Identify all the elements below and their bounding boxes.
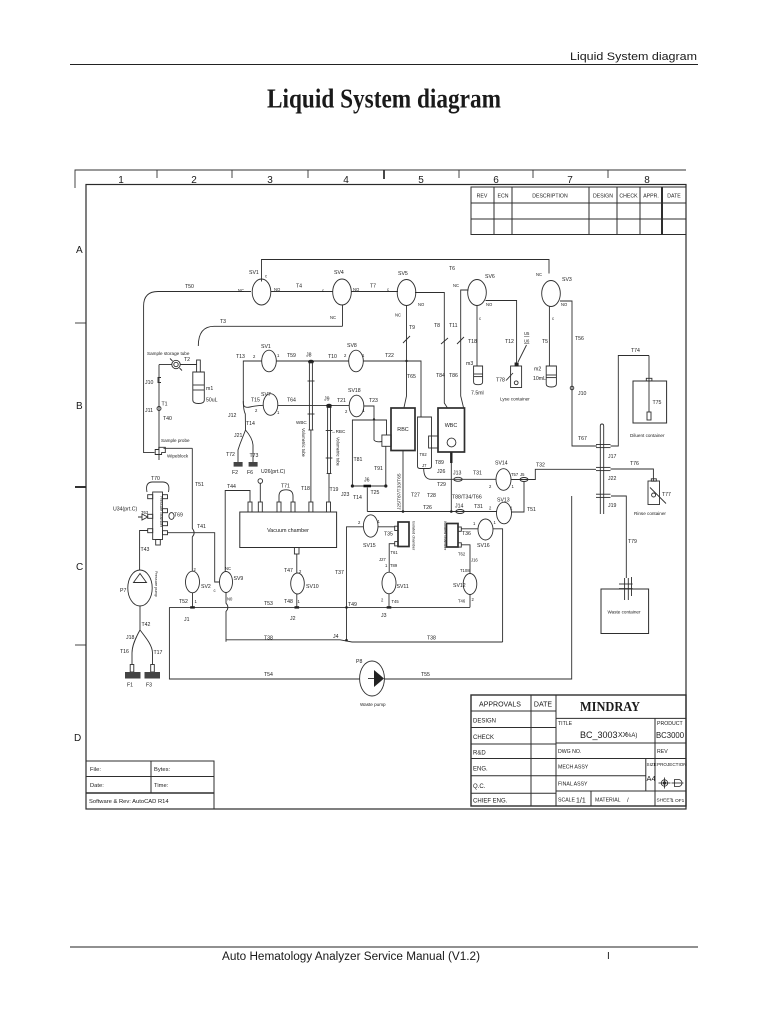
svg-text:T26: T26 (423, 505, 432, 511)
svg-text:J6: J6 (364, 478, 370, 484)
svg-text:T15: T15 (251, 398, 260, 404)
svg-text:PROJECTION: PROJECTION (657, 762, 687, 767)
svg-text:NC: NC (536, 272, 542, 277)
wire right chamber to SV16 (461, 528, 478, 530)
svg-text:J22: J22 (608, 476, 616, 482)
svg-text:T38: T38 (427, 636, 436, 642)
wire SV16 out down to T38 (493, 529, 503, 642)
svg-text:SV18: SV18 (348, 388, 361, 394)
wire T50 from SV1 NC to sample area (144, 292, 251, 453)
svg-text:Isolated chamber: Isolated chamber (412, 521, 416, 551)
drawing border frame (86, 185, 686, 810)
svg-text:SV11: SV11 (397, 584, 409, 590)
pump P7 (128, 570, 152, 606)
wire left chamber bottom to SV11 (389, 544, 395, 573)
svg-text:T81: T81 (354, 457, 363, 463)
isolated chamber left (398, 522, 409, 547)
svg-text:Rinse container: Rinse container (634, 511, 666, 516)
svg-text:A4: A4 (647, 774, 656, 783)
node J10 bracket on probe (158, 378, 161, 383)
J6 tick on loop bottom (364, 485, 372, 488)
sample storage tube connector circle (172, 360, 180, 368)
wire T59 to J8 (276, 360, 349, 362)
revision table top right (471, 187, 686, 235)
svg-text:T78: T78 (496, 378, 505, 384)
ruler ticks top (157, 170, 608, 179)
svg-text:T50: T50 (185, 284, 194, 290)
ruler top line (75, 169, 686, 171)
svg-text:T54: T54 (264, 672, 273, 678)
svg-text:→RBC: →RBC (331, 429, 346, 434)
svg-text:T31: T31 (474, 504, 483, 510)
svg-text:WBC: WBC (296, 420, 307, 425)
svg-text:T7: T7 (370, 284, 376, 290)
svg-text:U34(prt.C): U34(prt.C) (113, 507, 137, 513)
wire J13 row from J7 to SV14 (424, 469, 496, 480)
wire SV11 down to J3 (388, 594, 390, 608)
svg-text:SV1: SV1 (261, 344, 271, 350)
svg-text:T91: T91 (374, 466, 383, 472)
svg-text:J7: J7 (422, 463, 427, 468)
svg-text:APPR.: APPR. (643, 194, 659, 200)
svg-text:Liquid System diagram: Liquid System diagram (570, 51, 697, 63)
svg-text:T41: T41 (197, 524, 206, 530)
svg-text:T2: T2 (184, 357, 190, 363)
svg-text:T42: T42 (142, 622, 151, 628)
WBC volumetric tube under J8 (308, 363, 315, 502)
svg-text:7.5ml: 7.5ml (471, 391, 484, 397)
svg-text:%A): %A) (626, 733, 637, 739)
sensor U34 transducer (138, 514, 148, 520)
valve SV8 (349, 350, 364, 372)
waste container (601, 589, 649, 634)
wire T11/T86 SV6 NC to WBC (461, 290, 469, 408)
svg-text:DESIGN: DESIGN (473, 719, 496, 725)
valve SV5 (397, 280, 416, 306)
wire T64 SV7 to J9 (278, 404, 350, 406)
svg-text:T9: T9 (409, 325, 415, 331)
wire T48 SV10 to J2 (296, 594, 298, 607)
wire T4 SV1-SV4 (271, 291, 333, 293)
svg-text:T12: T12 (505, 339, 514, 345)
diluent probe (648, 356, 650, 413)
loop top wire (352, 420, 386, 486)
svg-text:T46: T46 (458, 599, 466, 604)
svg-text:REV: REV (657, 749, 668, 755)
svg-text:T25: T25 (371, 490, 380, 496)
m1 tube vial (193, 360, 205, 404)
svg-text:T69: T69 (174, 513, 183, 519)
svg-text:Vacuum chamber: Vacuum chamber (267, 528, 309, 534)
svg-text:T14: T14 (246, 421, 255, 427)
svg-text:Date:: Date: (90, 783, 104, 789)
filter F6 (252, 455, 254, 462)
svg-text:ENG.: ENG. (473, 767, 488, 773)
svg-text:PRODUCT: PRODUCT (657, 721, 683, 727)
svg-text:F6: F6 (247, 470, 253, 476)
svg-text:DATE: DATE (534, 702, 552, 709)
svg-text:T55: T55 (421, 672, 430, 678)
svg-text:Waste pump: Waste pump (360, 702, 386, 707)
svg-text:Volumetric tube: Volumetric tube (336, 437, 341, 467)
svg-text:Sample storage tube: Sample storage tube (147, 351, 190, 356)
footer rule (70, 946, 698, 948)
wire T79 to waste container (611, 496, 626, 578)
wire T54 loop left (169, 607, 359, 679)
RBC volumetric tube under J9 (326, 407, 333, 502)
svg-text:J14: J14 (455, 504, 463, 510)
wire T18 SV6 c to m3 vial (476, 306, 478, 367)
svg-text:J5: J5 (520, 472, 525, 477)
svg-text:10mL: 10mL (533, 376, 546, 382)
svg-text:T47: T47 (284, 568, 293, 574)
wire T14 drop from J6 to T26 line (366, 488, 368, 512)
svg-text:T5: T5 (542, 339, 548, 345)
wire J5 down to SV13 out (511, 482, 524, 513)
wire SV9 NO down through hop to T38 (226, 593, 228, 642)
svg-text:T67: T67 (578, 436, 587, 442)
wire T43 chamber to P7 (140, 531, 148, 571)
svg-text:SCALE: SCALE (558, 798, 576, 804)
svg-text:T79: T79 (628, 539, 637, 545)
svg-text:RBC: RBC (397, 427, 408, 433)
svg-text:m1: m1 (206, 386, 213, 392)
svg-text:T16: T16 (120, 649, 129, 655)
svg-text:T43: T43 (141, 547, 150, 553)
svg-text:T18: T18 (301, 486, 310, 492)
wire T47 to SV10 (296, 554, 298, 573)
svg-text:MECH ASSY: MECH ASSY (558, 765, 589, 771)
WBC aperture circle (447, 438, 456, 447)
wire T41 chamber to SV9 c (168, 533, 220, 582)
valve SV10 (291, 573, 305, 594)
svg-text:J1: J1 (184, 617, 190, 623)
svg-text:SV6: SV6 (485, 274, 495, 280)
wire T56 SV3 NO down to J10/T67 (560, 301, 597, 446)
svg-text:T63: T63 (141, 510, 149, 515)
wire wipeblock to T51 (164, 447, 193, 449)
wire T15 J12 to SV7 (243, 403, 263, 407)
svg-text:Lyse container: Lyse container (500, 397, 530, 402)
svg-text:T74: T74 (631, 348, 640, 354)
filter F2 (237, 455, 239, 462)
ruler numbers 1-8 (118, 175, 650, 186)
wipeblock (155, 447, 165, 454)
svg-text:ECN: ECN (498, 194, 509, 200)
svg-text:NC: NC (330, 315, 336, 320)
node J10 (570, 386, 574, 390)
svg-text:J19: J19 (608, 503, 616, 509)
svg-text:T38: T38 (264, 636, 273, 642)
svg-text:SV4: SV4 (334, 270, 344, 276)
WBC drain wire (450, 452, 452, 512)
svg-text:T21: T21 (337, 398, 346, 404)
svg-text:J17: J17 (608, 454, 616, 460)
wire T2 left segment (159, 364, 172, 366)
rinse container (648, 481, 660, 505)
arc T71 between chamber ports (279, 490, 293, 502)
svg-text:FINAL ASSY: FINAL ASSY (558, 782, 588, 788)
valve SV6 (468, 280, 487, 306)
wire SV2 to J1 (192, 593, 194, 608)
svg-text:N0: N0 (227, 597, 233, 602)
svg-text:SV1: SV1 (249, 270, 259, 276)
valve SV7 (263, 394, 278, 416)
svg-text:T35: T35 (384, 532, 393, 538)
svg-text:CHECK: CHECK (473, 735, 494, 741)
valve SV13 (497, 502, 512, 524)
svg-text:T52: T52 (179, 599, 188, 605)
svg-text:SV9: SV9 (234, 576, 244, 582)
svg-text:T89: T89 (435, 460, 444, 466)
svg-text:m3: m3 (466, 361, 473, 367)
RBC drain wire with label column (402, 451, 404, 512)
svg-text:Pressure pump: Pressure pump (154, 571, 158, 597)
svg-text:J10: J10 (145, 380, 153, 386)
svg-text:c: c (552, 316, 554, 321)
svg-text:T73: T73 (250, 453, 259, 459)
svg-text:T72: T72 (226, 452, 235, 458)
svg-text:T53: T53 (264, 601, 273, 607)
svg-text:T44: T44 (227, 484, 236, 490)
svg-text:Time:: Time: (154, 783, 169, 789)
svg-text:J10: J10 (578, 391, 586, 397)
ruler corner stub left (75, 170, 96, 188)
svg-text:DESCRIPTION: DESCRIPTION (532, 194, 568, 200)
file info table bottom left (86, 761, 214, 809)
lyse container (511, 366, 522, 388)
svg-text:SV7: SV7 (261, 392, 271, 398)
svg-text:SV14: SV14 (495, 461, 508, 467)
svg-text:T37: T37 (335, 570, 344, 576)
svg-text:T88/T34/T66: T88/T34/T66 (452, 495, 482, 501)
pressure chamber dome T70 (147, 482, 169, 492)
manifold crossbar J17 (596, 445, 611, 448)
wire T74 to diluent container (611, 356, 650, 447)
svg-text:T59: T59 (287, 353, 296, 359)
svg-text:B: B (76, 401, 83, 412)
svg-text:J25/T87/T33/T65: J25/T87/T33/T65 (397, 473, 403, 510)
wire T5 SV3 c to m2 vial (548, 307, 550, 367)
svg-text:NC: NC (225, 566, 231, 571)
RBC box (391, 408, 415, 451)
svg-text:J11: J11 (145, 408, 153, 414)
svg-text:NO: NO (561, 302, 568, 307)
svg-text:NC: NC (395, 313, 401, 318)
m2 reagent vial (546, 366, 556, 387)
wire SV4 NC down to T3 (342, 305, 344, 326)
svg-text:F1: F1 (127, 683, 133, 689)
wire T26 row (367, 511, 496, 513)
svg-text:J12: J12 (228, 413, 236, 419)
svg-text:File:: File: (90, 767, 101, 773)
svg-text:J26: J26 (437, 469, 445, 475)
chamber nipples (148, 495, 168, 545)
svg-text:1 OF1: 1 OF1 (671, 798, 685, 804)
svg-text:WBC: WBC (445, 423, 458, 429)
svg-text:A: A (76, 245, 83, 256)
vacuum chamber top nipples (248, 502, 331, 512)
svg-text:R&D: R&D (473, 751, 486, 757)
svg-text:NO: NO (486, 302, 493, 307)
svg-text:NC: NC (453, 283, 459, 288)
valve SV12 (463, 574, 477, 595)
diluent container box (633, 381, 667, 423)
svg-text:BC3000: BC3000 (656, 730, 684, 740)
svg-text:F2: F2 (232, 470, 238, 476)
svg-text:DWG NO.: DWG NO. (558, 749, 581, 755)
filter F3 (151, 665, 155, 673)
svg-text:T23: T23 (369, 398, 378, 404)
svg-text:T82: T82 (420, 452, 428, 457)
filter F1 (130, 665, 134, 673)
pressure chamber body (153, 492, 163, 540)
wire T9/T65 SV5 NC to RBC (404, 306, 407, 408)
svg-text:T48: T48 (284, 599, 293, 605)
svg-text:U6: U6 (524, 339, 530, 344)
header rule (70, 64, 698, 66)
pump P8 waste pump (360, 661, 385, 696)
svg-text:J2: J2 (290, 616, 296, 622)
svg-text:T64: T64 (287, 398, 296, 404)
svg-text:CHIEF ENG.: CHIEF ENG. (473, 799, 508, 805)
sample probe wire (158, 365, 160, 460)
svg-text:T61: T61 (391, 550, 399, 555)
svg-text:T71: T71 (281, 484, 290, 490)
svg-text:Waste container: Waste container (607, 610, 640, 615)
ruler side ticks left (75, 323, 86, 645)
loop corner blobs (351, 484, 354, 487)
svg-text:T8: T8 (434, 323, 440, 329)
wire SV12 down to T53 (469, 595, 471, 608)
revision table headers (477, 194, 682, 200)
svg-text:T89: T89 (390, 563, 398, 568)
svg-text:c: c (387, 287, 389, 292)
svg-text:T29: T29 (437, 482, 446, 488)
vacuum chamber bottom nipple (294, 548, 299, 555)
vacuum chamber box (240, 512, 337, 548)
svg-text:c: c (214, 588, 216, 593)
svg-text:P8: P8 (356, 659, 362, 665)
wire T38 line (226, 640, 503, 642)
svg-text:T3: T3 (220, 319, 226, 325)
svg-text:T36: T36 (462, 531, 471, 537)
svg-text:Volumetric tube: Volumetric tube (301, 428, 306, 458)
svg-text:Q.C.: Q.C. (473, 784, 486, 790)
valve SV1 middle (262, 350, 277, 372)
WBC left connector box (429, 436, 438, 448)
valve SV1 top (252, 279, 271, 305)
svg-text:T28: T28 (427, 493, 436, 499)
wire T12 SV6 NO to lyse container (486, 301, 517, 364)
svg-text:T62: T62 (458, 552, 466, 557)
node J8 (308, 360, 314, 364)
svg-text:SV13: SV13 (497, 498, 510, 504)
svg-text:SV5: SV5 (398, 271, 408, 277)
svg-text:T45: T45 (392, 599, 400, 604)
svg-text:T75: T75 (653, 400, 662, 406)
svg-text:J13: J13 (453, 471, 461, 477)
svg-text:MATERIAL: MATERIAL (595, 798, 621, 804)
svg-text:J23: J23 (341, 492, 349, 498)
svg-text:T86: T86 (449, 373, 458, 379)
svg-text:J18: J18 (126, 635, 134, 641)
svg-text:P7: P7 (120, 588, 126, 594)
svg-text:T108: T108 (460, 568, 470, 573)
valve SV15 (363, 515, 378, 537)
manifold crossbar J22 (596, 467, 611, 470)
svg-text:T57: T57 (511, 472, 519, 477)
svg-text:BC_3003: BC_3003 (580, 730, 618, 740)
svg-text:D: D (74, 733, 81, 744)
svg-text:T17: T17 (154, 650, 163, 656)
WBC box (438, 408, 465, 452)
svg-text:Software & Rev: AutoCAD R14: Software & Rev: AutoCAD R14 (89, 799, 169, 805)
valve SV14 (496, 469, 511, 491)
svg-text:REV: REV (477, 194, 488, 200)
loop right/bottom T91 (352, 446, 385, 486)
svg-text:SV10: SV10 (306, 584, 319, 590)
svg-text:c: c (479, 316, 481, 321)
svg-text:F3: F3 (146, 683, 152, 689)
svg-text:J27: J27 (379, 557, 386, 562)
node J11 circle (157, 407, 161, 411)
svg-text:SIZE: SIZE (647, 762, 657, 767)
valve SV2 (186, 571, 200, 593)
wire right chamber bottom to SV12 (461, 545, 470, 574)
wire J12 trunk down to J21 and filters F2 F6 (238, 401, 246, 455)
svg-text:Diluent container: Diluent container (630, 433, 665, 438)
svg-text:SV8: SV8 (347, 343, 357, 349)
svg-text:T4: T4 (296, 284, 302, 290)
svg-text:Isolated chamber: Isolated chamber (443, 521, 447, 551)
svg-text:MINDRAY: MINDRAY (580, 700, 640, 715)
waste probe (619, 577, 633, 600)
projection symbol third angle (672, 780, 684, 787)
svg-text:SV2: SV2 (201, 584, 211, 590)
middle valve row: wire T13 trunk (243, 361, 262, 403)
wire T3 from sample tube to SV4 NC (198, 326, 342, 346)
middle aperture box (418, 417, 432, 469)
svg-text:m2: m2 (534, 367, 541, 373)
valve SV18 (349, 395, 364, 417)
svg-text:T6: T6 (449, 266, 455, 272)
m3 reagent vial (474, 366, 483, 385)
wire T53 main line (169, 606, 470, 608)
svg-text:c: c (322, 288, 324, 293)
node J14 capsule (456, 510, 464, 514)
valve SV16 (478, 519, 493, 540)
node J13 capsule (454, 477, 462, 481)
svg-text:T84: T84 (436, 373, 445, 379)
valve SV11 (382, 572, 396, 594)
svg-text:T51: T51 (527, 507, 536, 513)
svg-text:CHECK: CHECK (619, 194, 638, 200)
svg-text:T11: T11 (449, 323, 458, 329)
svg-text:U5: U5 (524, 331, 530, 336)
projection symbol first angle (659, 778, 671, 789)
svg-text:SV3: SV3 (562, 277, 572, 283)
svg-text:J8: J8 (306, 353, 312, 359)
svg-text:TITLE: TITLE (558, 721, 573, 727)
wire T55 to right (384, 496, 571, 679)
title block outer (471, 695, 686, 806)
svg-text:T13: T13 (236, 354, 245, 360)
ruler letters A-D (74, 245, 83, 744)
svg-text:SV12: SV12 (453, 583, 466, 589)
svg-text:J16: J16 (471, 558, 478, 563)
svg-text:NO: NO (418, 302, 425, 307)
